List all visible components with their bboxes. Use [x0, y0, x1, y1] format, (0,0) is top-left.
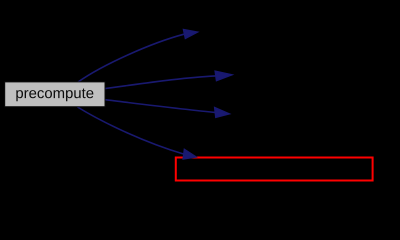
edge 3 wire (precompute to third callee) [105, 100, 215, 113]
edge 1 arrowhead [183, 29, 198, 39]
edge 1 wire (precompute to top callee) [78, 34, 184, 82]
node: truncated callee (red outline box) [176, 158, 373, 181]
edge 2 arrowhead [215, 71, 233, 81]
node precompute (current function, grey filled box) [5, 82, 105, 107]
edge 3 arrowhead [214, 107, 230, 117]
edge 2 wire (precompute to second callee) [105, 76, 216, 89]
edge 4 arrowhead [183, 149, 197, 159]
edge 4 wire (precompute to truncated red node) [78, 107, 184, 154]
